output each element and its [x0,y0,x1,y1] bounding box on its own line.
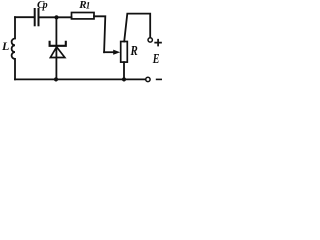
resistor R1 box [72,13,95,19]
wire zener branch vertical [55,17,57,79]
wire cap to R1 [40,16,72,18]
svg-text:R: R [130,43,138,59]
svg-text:L: L [1,39,9,53]
wire wiper arm with arrowhead into R [104,51,114,53]
node junction dot bottom (zener) [54,77,58,81]
svg-text:1: 1 [86,0,91,10]
label plus sign [155,40,161,46]
svg-text:p: p [42,0,48,11]
terminal circle minus [146,77,150,81]
node junction dot top [54,15,58,19]
svg-text:E: E [152,51,160,67]
node junction dot R bottom [122,77,126,81]
inductor L [12,17,15,79]
potentiometer R box [121,42,128,63]
wire R top up and right to plus terminal [124,14,150,42]
terminal circle plus [148,38,152,42]
capacitor Cp [35,9,39,25]
wire top rail left [15,16,34,18]
zener diode triangle [50,47,64,58]
wire R bottom to rail [123,62,125,79]
wire bottom rail [15,78,146,80]
zener diode VD (bar with upturned ends) [50,42,66,46]
label minus sign [157,78,162,80]
wire R1 to corner and down [94,16,105,52]
